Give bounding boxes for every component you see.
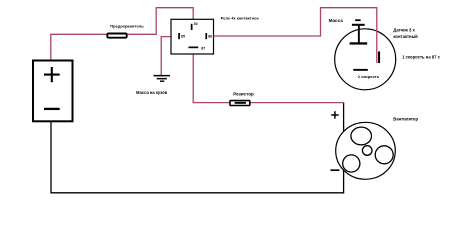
svg-text:Резистор: Резистор <box>233 92 254 97</box>
svg-text:контактный: контактный <box>393 34 418 39</box>
svg-text:Реле 4х контактное: Реле 4х контактное <box>221 16 260 21</box>
svg-text:2 скорость: 2 скорость <box>358 74 380 79</box>
svg-text:Датчик 3 х: Датчик 3 х <box>393 28 415 33</box>
svg-text:1 скорость на 87 с: 1 скорость на 87 с <box>402 54 440 59</box>
svg-text:86: 86 <box>208 35 212 39</box>
svg-text:Масса на кузов: Масса на кузов <box>136 90 168 95</box>
svg-text:Предохранитель: Предохранитель <box>110 23 144 28</box>
svg-text:Масса: Масса <box>329 18 344 23</box>
svg-text:87: 87 <box>201 46 205 50</box>
svg-text:85: 85 <box>181 35 185 39</box>
svg-text:Вентилятор: Вентилятор <box>393 116 418 121</box>
svg-text:30: 30 <box>194 22 198 26</box>
